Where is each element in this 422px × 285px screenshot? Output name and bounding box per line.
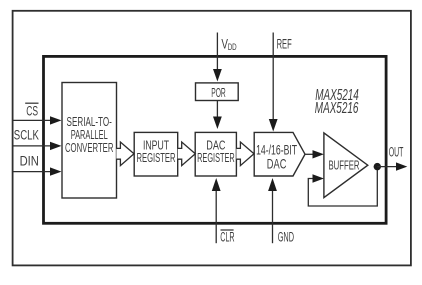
svg-text:REGISTER: REGISTER	[197, 150, 235, 165]
wire CS input	[13, 119, 51, 121]
pin VDD label	[221, 37, 236, 54]
hollow block arrow 3 (DAC register to DAC)	[236, 142, 254, 166]
svg-text:CLR: CLR	[220, 230, 234, 246]
wire DAC to buffer	[305, 153, 314, 155]
node output junction dot	[374, 163, 381, 170]
block POR	[196, 83, 239, 101]
wire DIN input	[13, 171, 51, 173]
block INPUT REGISTER	[134, 132, 178, 176]
svg-text:CS: CS	[26, 104, 38, 120]
svg-text:DD: DD	[228, 42, 237, 53]
svg-text:REF: REF	[277, 36, 292, 52]
svg-text:DAC: DAC	[267, 156, 287, 171]
wire POR to DAC register	[216, 101, 218, 118]
wire OUT	[377, 166, 397, 168]
chip boundary box	[44, 56, 387, 223]
wire CLR to DAC register	[215, 191, 217, 244]
svg-text:SCLK: SCLK	[14, 128, 39, 144]
op-amp BUFFER (triangle)	[324, 133, 368, 198]
pin CS label with overline	[25, 103, 38, 120]
block 14-/16-BIT DAC (pentagon)	[254, 132, 305, 176]
svg-text:GND: GND	[278, 230, 294, 246]
pin CLR label with overline	[220, 230, 234, 246]
hollow block arrow 2 (input register to DAC register)	[178, 142, 196, 166]
svg-text:BUFFER: BUFFER	[329, 158, 360, 173]
svg-text:OUT: OUT	[389, 145, 404, 161]
wire SCLK input	[13, 145, 51, 147]
hollow block arrow 1 (converter to input register)	[116, 142, 134, 166]
svg-text:POR: POR	[211, 85, 226, 100]
wire REF to DAC	[272, 33, 274, 120]
svg-text:REGISTER: REGISTER	[136, 150, 175, 165]
wire GND to DAC	[272, 191, 274, 244]
svg-text:DIN: DIN	[20, 154, 39, 170]
svg-text:CONVERTER: CONVERTER	[65, 140, 114, 155]
wire buffer feedback loop	[308, 167, 377, 206]
block DAC REGISTER	[195, 132, 236, 176]
svg-text:MAX5216: MAX5216	[315, 100, 359, 117]
block U1 SERIAL-TO-PARALLEL CONVERTER	[62, 83, 117, 199]
wire VDD to POR	[216, 33, 218, 71]
part name MAX5214 MAX5216	[315, 87, 359, 117]
